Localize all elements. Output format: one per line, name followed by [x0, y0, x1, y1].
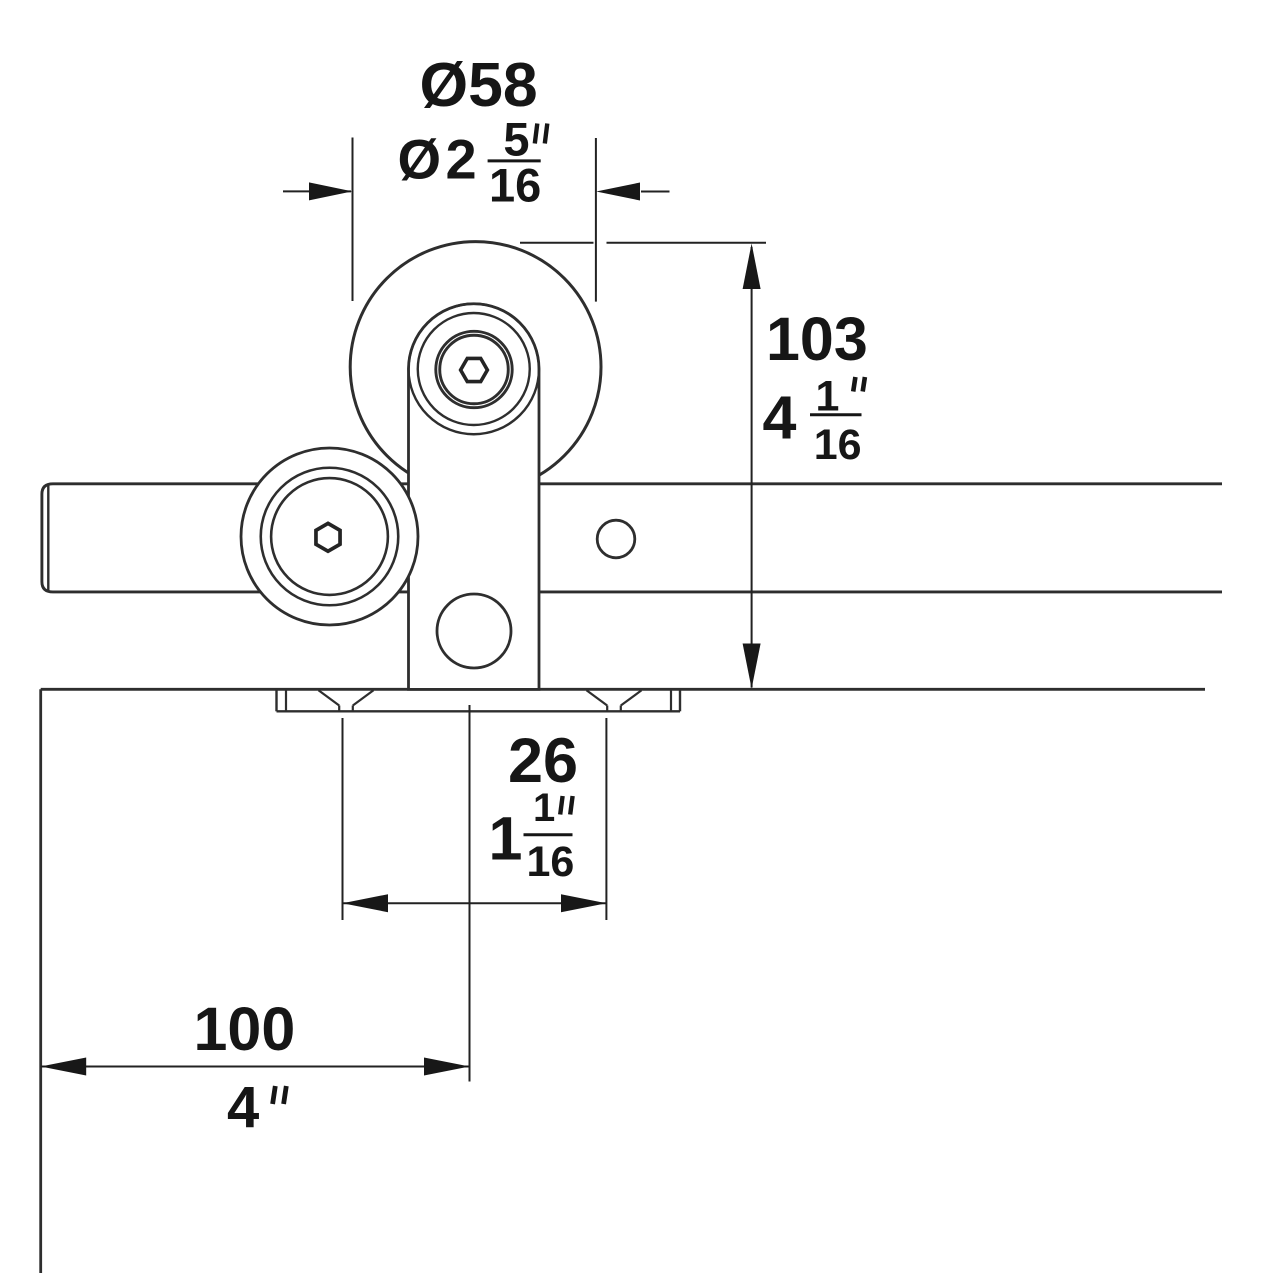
axle outer ring: [436, 331, 512, 407]
svg-text:100: 100: [194, 995, 296, 1063]
strap bolt hole: [437, 594, 511, 668]
left arrow: [283, 190, 351, 192]
dimension 26: left extension line: [342, 718, 344, 920]
plate left end inner line: [285, 689, 287, 711]
rail mounting hole: [597, 520, 635, 558]
right extension line: [605, 718, 607, 920]
down arrowhead: [743, 644, 761, 689]
dimension Ø58 / Ø2 5/16: left extension line: [352, 138, 354, 302]
hub washer (strap cap circle): [409, 304, 540, 435]
svg-text:1: 1: [533, 786, 555, 830]
hub ring r56: [418, 313, 530, 425]
dimension 103: top extension line: [520, 242, 594, 244]
svg-text:Ø58: Ø58: [420, 50, 538, 120]
svg-text:4: 4: [227, 1075, 259, 1140]
dimension line: [41, 1066, 470, 1068]
plate right end: [679, 689, 681, 711]
axle inner ring: [440, 335, 509, 404]
door panel left edge: [39, 689, 42, 1273]
svg-text:16: 16: [489, 159, 541, 212]
dimension line: [343, 902, 607, 904]
left countersunk screw hole: [319, 690, 374, 711]
door panel top edge: [41, 688, 1205, 691]
plate left end: [275, 689, 277, 711]
svg-text:16: 16: [814, 421, 862, 469]
svg-text:1: 1: [489, 805, 523, 873]
floor guide plate bottom: [277, 710, 681, 712]
dimension 100: centre line: [469, 705, 471, 1082]
rail left end cap inner line: [47, 485, 49, 592]
vertical dimension line: [751, 247, 753, 688]
plate right end inner line: [670, 689, 672, 711]
left guide roller: [241, 448, 418, 625]
rail (running track): [42, 484, 1222, 592]
svg-text:16: 16: [527, 838, 575, 886]
right arrow: [641, 191, 670, 193]
hub hex socket: [461, 358, 488, 381]
svg-text:4: 4: [763, 384, 797, 452]
right countersunk screw hole: [587, 690, 642, 711]
svg-text:Ø2: Ø2: [398, 128, 482, 191]
left roller hex socket: [316, 523, 340, 551]
svg-text:103: 103: [766, 305, 868, 373]
up arrowhead: [743, 244, 761, 290]
hanger strap: [409, 304, 540, 690]
big wheel (roller Ø58): [350, 242, 601, 493]
right extension line: [595, 138, 597, 302]
